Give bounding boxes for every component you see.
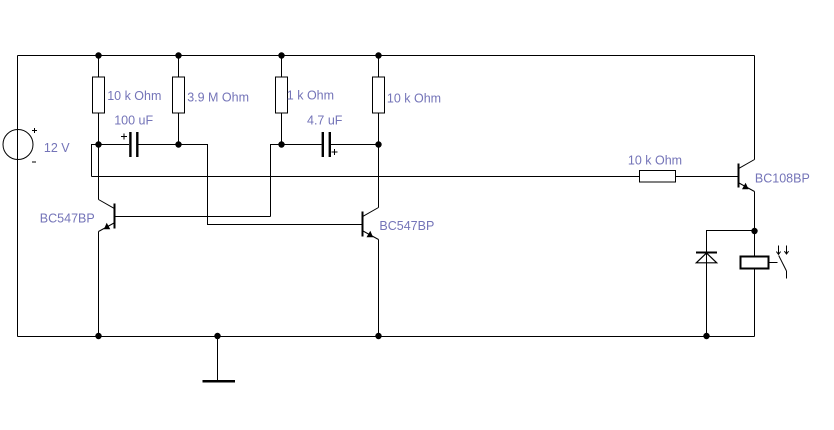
node dot bottom diode bbox=[703, 333, 709, 339]
svg-text:BC108BP: BC108BP bbox=[755, 171, 810, 185]
wire left rail bbox=[17, 56, 19, 337]
node dot bottom Q2 emitter bbox=[375, 333, 381, 339]
wire Q1 emitter vertical bbox=[98, 232, 100, 337]
wire top rail bbox=[18, 55, 755, 57]
wire Q1 collector vertical bbox=[98, 145, 100, 200]
wire C1 to node B bbox=[139, 144, 179, 146]
wire relay bottom bbox=[754, 269, 756, 337]
resistor R1 10k lead bottom bbox=[98, 113, 100, 145]
node dot B bbox=[175, 141, 181, 147]
svg-text:1 k Ohm: 1 k Ohm bbox=[287, 89, 334, 103]
wire C2 to node D bbox=[331, 144, 379, 146]
capacitor C2 4.7uF plates bbox=[322, 132, 331, 157]
wire Q2 collector vertical bbox=[378, 145, 380, 208]
resistor R4 10k body bbox=[373, 77, 385, 113]
wire long line to R5 bbox=[92, 176, 640, 178]
node dot bottom Q1 emitter bbox=[95, 333, 101, 339]
diode D1 cathode bar bbox=[696, 252, 717, 254]
node dot top rail R4 bbox=[375, 52, 381, 58]
wire node E to diode branch bbox=[707, 231, 755, 337]
node dot bottom ground bbox=[214, 333, 220, 339]
svg-text:10 k Ohm: 10 k Ohm bbox=[628, 154, 682, 168]
svg-text:3.9 M Ohm: 3.9 M Ohm bbox=[187, 91, 249, 105]
capacitor C1 plus polarity mark bbox=[121, 134, 127, 140]
resistor R3 1k lead top bbox=[281, 56, 283, 78]
node E junction dot emitter Q3 bbox=[751, 228, 757, 234]
svg-text:10 k Ohm: 10 k Ohm bbox=[387, 92, 441, 106]
wire Q3 collector vertical bbox=[754, 56, 756, 160]
wire cap row node A to C1 bbox=[99, 144, 130, 146]
resistor R3 1k lead bottom bbox=[281, 113, 283, 145]
relay contact actuation arrow 2 bbox=[784, 246, 788, 255]
wire Q2 emitter vertical bbox=[378, 240, 380, 337]
resistor R2 3.9M lead bottom bbox=[178, 113, 180, 145]
wire relay stub to contact bbox=[769, 262, 778, 264]
resistor R4 10k lead top bbox=[378, 56, 380, 78]
svg-text:BC547BP: BC547BP bbox=[379, 219, 434, 233]
resistor R4 10k lead bottom bbox=[378, 113, 380, 145]
voltage source V1 12V bbox=[3, 128, 37, 162]
svg-text:100 uF: 100 uF bbox=[114, 113, 153, 127]
wire node B jog down to Q2 base bbox=[179, 145, 363, 225]
node dot C bbox=[278, 141, 284, 147]
wire node A bypass to long output line bbox=[92, 145, 99, 177]
wire Q1 base bbox=[115, 216, 271, 218]
svg-text:BC547BP: BC547BP bbox=[40, 212, 95, 226]
resistor R1 10k body bbox=[93, 77, 105, 113]
diode D1 triangle bbox=[696, 253, 716, 263]
wire R5 to Q3 base bbox=[676, 176, 739, 178]
node dot top rail R2 bbox=[175, 52, 181, 58]
relay coil K1 bbox=[741, 257, 769, 269]
svg-text:12 V: 12 V bbox=[44, 141, 70, 155]
svg-text:10 k Ohm: 10 k Ohm bbox=[107, 89, 161, 103]
relay contact actuation arrow 1 bbox=[776, 246, 780, 255]
svg-text:4.7 uF: 4.7 uF bbox=[307, 113, 343, 127]
transistor Q2 BC547BP bbox=[363, 208, 379, 240]
ground bar bbox=[203, 380, 236, 383]
resistor R2 3.9M lead top bbox=[178, 56, 180, 78]
relay contact lower terminal bbox=[786, 271, 788, 279]
ground stem bbox=[217, 337, 219, 381]
node dot top rail R3 bbox=[278, 52, 284, 58]
wire node C to C2 bbox=[282, 144, 322, 146]
node dot A bbox=[95, 141, 101, 147]
wire bottom rail bbox=[18, 336, 755, 338]
transistor Q1 BC547BP bbox=[99, 200, 115, 232]
capacitor C1 100uF plates bbox=[129, 132, 138, 157]
resistor R2 3.9M body bbox=[173, 77, 185, 113]
wire node C jog down to Q1 base bbox=[271, 145, 282, 217]
capacitor C2 plus polarity mark bbox=[331, 149, 337, 155]
transistor Q3 BC108BP bbox=[739, 160, 755, 192]
resistor R1 10k lead top bbox=[98, 56, 100, 78]
wire Q3 emitter vertical bbox=[754, 192, 756, 232]
wire relay top bbox=[754, 231, 756, 257]
node dot top rail R1 bbox=[95, 52, 101, 58]
resistor R5 10k body bbox=[640, 171, 676, 183]
node dot D bbox=[375, 141, 381, 147]
relay contact blade bbox=[779, 256, 787, 272]
resistor R3 1k body bbox=[276, 77, 288, 113]
